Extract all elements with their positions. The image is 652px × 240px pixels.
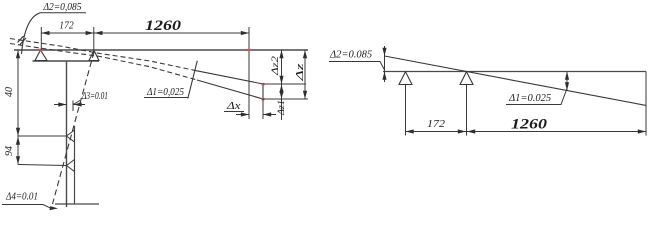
arrow down tip at y99 (delta-z1): [279, 91, 283, 99]
arrow up tip at datum (dim 40): [16, 50, 20, 58]
reference tick 2 on arc: [20, 38, 26, 45]
red junction dot beam end top: [262, 83, 265, 85]
delta3 dimension left segment: [54, 104, 67, 106]
svg-text:Δz1: Δz1: [277, 100, 287, 116]
tilted beam bottom line (solid part): [197, 80, 263, 99]
upper connector line to column: [18, 135, 67, 137]
right support triangle 2: [460, 72, 473, 85]
svg-text:Δx: Δx: [226, 101, 241, 112]
svg-text:Δ4=0.01: Δ4=0.01: [5, 192, 38, 203]
beam end bottom extension to right: [263, 98, 308, 100]
dimension line 172 / 1260: [41, 32, 249, 34]
arrow down tip at y84 (delta-z2): [279, 76, 283, 84]
arrow up tip at datum (delta-z2): [279, 50, 283, 58]
delta1 arrow down tip at sloped line: [565, 82, 569, 90]
dimension 1260: right extension line (long, down to delta-x): [248, 27, 250, 119]
svg-text:Δz: Δz: [294, 62, 306, 82]
delta2 small dimension line: [384, 46, 386, 82]
delta1 arrow up tip at datum: [565, 72, 569, 80]
right diagram sloped line: [385, 56, 647, 105]
tilted beam top line (solid part): [195, 70, 263, 84]
reference triangle upper on column: [67, 130, 75, 142]
svg-text:Δz2: Δz2: [271, 56, 281, 77]
reference tick 1 on arc: [18, 36, 24, 43]
arrow up tip at y84.5 (delta-z1): [279, 85, 283, 93]
column right edge line: [74, 126, 76, 204]
tilted beam top line (dashed part): [10, 39, 195, 71]
support triangle right: [89, 51, 99, 61]
reference triangle lower on column: [67, 160, 75, 172]
delta3 arrow right tip at column edge: [58, 102, 66, 106]
red junction dot beam end bottom: [262, 98, 265, 100]
support base line: [33, 60, 100, 62]
arrow up tip (delta-z): [303, 50, 307, 58]
svg-text:1260: 1260: [145, 18, 181, 34]
arrow down tip at y136 (dim 40): [16, 128, 20, 136]
right diagram datum line: [383, 71, 646, 73]
support triangle left: [35, 50, 47, 61]
arrow left tip of 172: [41, 31, 49, 35]
arrow left tip of 1260: [94, 31, 102, 35]
delta-x arrow left tip: [263, 112, 271, 116]
delta-x dimension right segment: [263, 114, 276, 116]
leader underline of delta2 label: [41, 12, 87, 14]
delta3 arrow left tip at tick: [73, 102, 81, 106]
extension line below triangle 2: [466, 85, 468, 136]
red junction dot at left support apex: [39, 49, 42, 52]
beam datum line: [14, 49, 308, 51]
arrow right tip of 172 (right diagram): [458, 129, 466, 133]
svg-text:40: 40: [4, 87, 15, 97]
arrow right tip of 1260: [241, 31, 249, 35]
svg-text:Δ1=0,025: Δ1=0,025: [146, 87, 184, 98]
dimension 172: extension line left: [40, 27, 42, 50]
svg-text:1260: 1260: [511, 117, 547, 133]
curved leader arc from delta2 label to datum: [22, 13, 41, 54]
underline leader of delta1 (right diagram): [506, 89, 567, 105]
arrow left tip of 172 (right diagram): [406, 129, 414, 133]
beam right end edge: [262, 84, 264, 99]
delta1 dimension line: [566, 72, 568, 91]
bottom dimension line 172 / 1260: [406, 131, 647, 133]
tilted beam bottom line (dashed part): [10, 44, 197, 81]
svg-text:172: 172: [59, 21, 74, 32]
delta-z2 / delta-z1 dimension line: [281, 50, 283, 120]
right edge vertical / extension: [645, 72, 647, 136]
underline leader of delta1 label: [144, 97, 188, 99]
column bottom base line: [55, 203, 99, 205]
svg-text:Δ1=0.025: Δ1=0.025: [508, 93, 551, 104]
arrow right tip of 1260 (right diagram): [638, 129, 646, 133]
leader from delta3 label: [73, 101, 80, 105]
delta-z dimension line: [304, 50, 306, 99]
arrow up tip at y136 (dim 94): [16, 137, 20, 145]
svg-text:Δ2=0,085: Δ2=0,085: [43, 2, 82, 13]
column left edge line: [66, 61, 68, 207]
delta3 reference tick: [72, 101, 74, 112]
arrow left tip of 1260 (right diagram): [467, 129, 475, 133]
svg-text:172: 172: [427, 119, 446, 130]
dimension 172/1260: shared extension line: [93, 27, 95, 50]
beam end extension down (delta-x right reference): [262, 99, 264, 119]
extension line below triangle 1: [405, 85, 407, 136]
delta-x dimension left segment: [236, 114, 249, 116]
underline leader of delta4 label: [2, 205, 50, 208]
tilted column axis (dashed): [53, 52, 95, 204]
delta-x label underline: [224, 111, 244, 113]
left vertical dimension line (40 / 94): [17, 50, 19, 165]
delta2 arrow down tip at sloped line: [382, 48, 386, 56]
right support triangle 1: [399, 72, 412, 85]
delta3 dimension right segment: [73, 104, 85, 106]
leader tick crossing beam lines: [188, 61, 198, 99]
lower connector line to column: [18, 165, 67, 166]
svg-text:Δ2=0.085: Δ2=0.085: [329, 50, 372, 61]
delta4 leader arrow tip at axis bottom: [50, 206, 59, 210]
beam end top extension to right: [263, 83, 306, 85]
underline leader of delta2 (right diagram): [329, 62, 385, 71]
delta2 arrow up tip at datum: [382, 72, 386, 80]
delta-x arrow right tip: [241, 112, 249, 116]
arrow right tip of 172: [86, 31, 94, 35]
arrow down tip at y164.5 (dim 94): [16, 156, 20, 164]
svg-text:Δ3=0.01: Δ3=0.01: [81, 91, 108, 102]
arrow down tip (delta-z): [303, 91, 307, 99]
svg-text:94: 94: [4, 146, 15, 156]
red junction dot at 1260 extension crossing datum: [248, 49, 251, 51]
